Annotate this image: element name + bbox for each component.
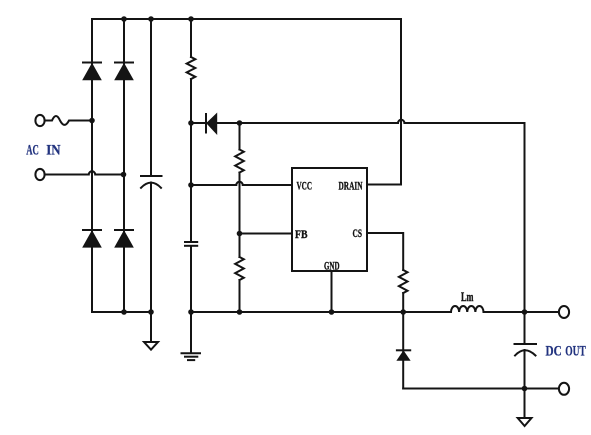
- diode D1: [83, 63, 101, 80]
- node rail x403: [400, 309, 406, 315]
- wire AC bottom with hop over left leg: [45, 171, 124, 174]
- diode D2: [115, 63, 133, 80]
- diode D5: [397, 350, 410, 360]
- wire to minus terminal: [525, 388, 559, 390]
- wire divider leg bottom: [239, 280, 241, 312]
- wire FB pin line: [240, 233, 293, 235]
- node output minus: [522, 386, 528, 392]
- node GND on rail: [329, 309, 335, 315]
- fuse F1: [45, 116, 92, 125]
- resistor R4: [399, 270, 408, 293]
- wire divider leg middle: [239, 173, 241, 258]
- node bottom rail x239.5: [237, 309, 243, 315]
- diode D6: [206, 114, 217, 134]
- wire startup leg top: [190, 19, 192, 57]
- svg-text:VCC: VCC: [297, 179, 313, 193]
- label DC OUT: [546, 344, 586, 360]
- node VCC line x191: [188, 182, 194, 188]
- wire DRAIN pin line: [367, 184, 401, 186]
- node bottom rail x151: [148, 309, 154, 315]
- node bottom rail x191: [188, 309, 194, 315]
- resistor R3: [235, 257, 244, 280]
- wire startup leg lower: [190, 247, 192, 354]
- op-amp U1 (controller IC): [292, 168, 367, 271]
- svg-text:OUT: OUT: [565, 344, 586, 360]
- wire VCC pin line with hop over divider: [191, 182, 292, 185]
- AC input terminal top: [35, 115, 44, 126]
- wire bridge second leg: [123, 19, 125, 312]
- svg-text:CS: CS: [353, 226, 363, 240]
- diode D4: [115, 230, 133, 247]
- ground (earth) VCC cap: [182, 353, 201, 360]
- wire auxiliary diode line with hop at x401: [191, 120, 525, 123]
- wire below C3: [524, 350, 526, 418]
- label AC IN: [26, 143, 60, 159]
- wire CS pin line: [367, 233, 403, 270]
- diode D3: [83, 230, 101, 247]
- wire to plus terminal: [525, 311, 559, 313]
- ground (triangle) output: [518, 418, 532, 426]
- wire main bottom rail: [191, 311, 451, 313]
- wire input cap leg upper: [150, 19, 152, 176]
- svg-text:DRAIN: DRAIN: [339, 179, 363, 193]
- capacitor C2: [185, 242, 197, 246]
- node top rail x124: [121, 16, 127, 22]
- resistor R2: [235, 150, 244, 173]
- wire R4 to rail: [402, 293, 404, 312]
- node diode line x239.5: [237, 120, 243, 126]
- wire drain riser: [400, 19, 402, 185]
- capacitor C3: [515, 344, 537, 356]
- wire rail after inductor: [484, 311, 525, 313]
- wire bridge bottom rail: [92, 311, 151, 313]
- svg-text:AC: AC: [26, 143, 39, 159]
- wire input cap leg lower: [150, 183, 152, 343]
- node FB tap: [237, 231, 243, 237]
- inductor Lm: [451, 306, 483, 312]
- AC input terminal bottom: [35, 169, 44, 180]
- DC output terminal bottom: [559, 383, 569, 395]
- resistor R1: [187, 57, 196, 79]
- node AC bottom junction: [121, 172, 127, 178]
- wire divider leg top: [239, 123, 241, 150]
- svg-text:FB: FB: [295, 227, 308, 241]
- capacitor C1: [141, 176, 162, 188]
- node AC top junction: [89, 118, 95, 124]
- wire freewheel leg: [402, 312, 404, 389]
- svg-text:Lm: Lm: [461, 289, 474, 304]
- node top rail x151: [148, 16, 154, 22]
- DC output terminal top: [559, 306, 569, 318]
- wire output bottom rail: [403, 388, 524, 390]
- svg-text:DC: DC: [546, 344, 562, 360]
- wire top rail: [92, 18, 401, 20]
- node top rail x191: [188, 16, 194, 22]
- ground (triangle) AC side: [144, 342, 158, 350]
- wire output riser: [524, 123, 526, 344]
- svg-text:IN: IN: [46, 143, 60, 159]
- wire GND pin stub: [331, 271, 333, 312]
- wire bridge left leg: [91, 19, 93, 312]
- node diode line x191: [188, 120, 194, 126]
- node output plus: [522, 309, 528, 315]
- wire startup leg middle: [190, 79, 192, 241]
- node bottom rail x124: [121, 309, 127, 315]
